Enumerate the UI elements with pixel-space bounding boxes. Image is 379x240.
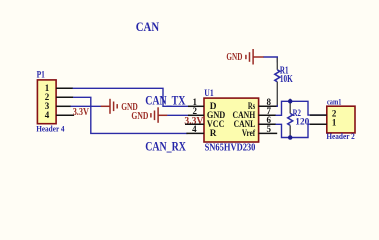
svg-text:Header 2: Header 2 bbox=[326, 132, 354, 141]
svg-text:cam1: cam1 bbox=[327, 97, 341, 107]
svg-text:CAN_RX: CAN_RX bbox=[145, 139, 186, 153]
R1 bottom lead bbox=[276, 82, 278, 107]
P1 pin 4 stub bbox=[56, 114, 74, 116]
svg-text:3.3V: 3.3V bbox=[73, 106, 89, 118]
P1 pin 2 stub bbox=[56, 96, 73, 98]
connector cam1 bbox=[310, 97, 355, 141]
svg-text:10K: 10K bbox=[280, 74, 293, 85]
P1 body bbox=[37, 80, 56, 124]
wire P1.3 to GND bbox=[71, 105, 102, 107]
cam1 pin stubs bbox=[310, 114, 327, 116]
IC U1 SN65HVD230 bbox=[185, 88, 277, 153]
svg-text:R: R bbox=[210, 129, 217, 139]
U1 body bbox=[204, 98, 259, 142]
R1 body bbox=[275, 70, 280, 82]
wire GND to U1.2 bbox=[167, 114, 188, 116]
svg-text:P1: P1 bbox=[37, 70, 46, 80]
wire CANH: U1.7 up and over to cam1.2 bbox=[276, 101, 328, 115]
R1 top lead bbox=[276, 58, 278, 70]
svg-text:1: 1 bbox=[332, 118, 337, 128]
svg-text:U1: U1 bbox=[204, 88, 214, 98]
U1 right pin stubs bbox=[259, 105, 277, 107]
R2 top lead bbox=[289, 99, 291, 114]
wire U1.8 Rs up to R1 bbox=[276, 105, 279, 107]
wire GND to R1 bbox=[264, 57, 278, 63]
wire CANL: U1.6 down and over to cam1.1 bbox=[276, 124, 328, 137]
svg-text:120: 120 bbox=[295, 116, 309, 127]
R2 bottom lead bbox=[289, 125, 291, 137]
wire CAN_RX: P1.2 to U1.4 bbox=[73, 97, 188, 133]
P1 pin 1 stub bbox=[56, 87, 73, 89]
svg-text:5: 5 bbox=[267, 124, 272, 134]
U1 left pin stubs bbox=[188, 105, 204, 107]
svg-text:CAN: CAN bbox=[136, 20, 160, 34]
svg-text:CAN_TX: CAN_TX bbox=[145, 94, 185, 108]
svg-text:4: 4 bbox=[45, 110, 50, 120]
svg-text:GND: GND bbox=[226, 51, 242, 63]
resistor R1 bbox=[275, 58, 293, 107]
svg-text:Header 4: Header 4 bbox=[36, 125, 65, 134]
connector P1 bbox=[36, 70, 74, 134]
junction dot CANL/R2 bbox=[288, 135, 293, 140]
cam1 body bbox=[327, 106, 355, 133]
svg-text:Vref: Vref bbox=[242, 129, 256, 139]
svg-text:4: 4 bbox=[192, 124, 197, 134]
resistor R2 bbox=[288, 99, 310, 138]
ground symbol (P1 pin 3) bbox=[101, 99, 118, 114]
wire CAN_TX: P1.1 to U1.1 bbox=[73, 88, 189, 106]
junction dot CANH/R2 bbox=[288, 99, 293, 104]
R2 body bbox=[288, 113, 293, 125]
P1 pin 3 stub bbox=[56, 105, 71, 107]
svg-text:SN65HVD230: SN65HVD230 bbox=[205, 141, 256, 153]
svg-text:2: 2 bbox=[193, 106, 198, 116]
svg-text:GND: GND bbox=[131, 110, 148, 122]
